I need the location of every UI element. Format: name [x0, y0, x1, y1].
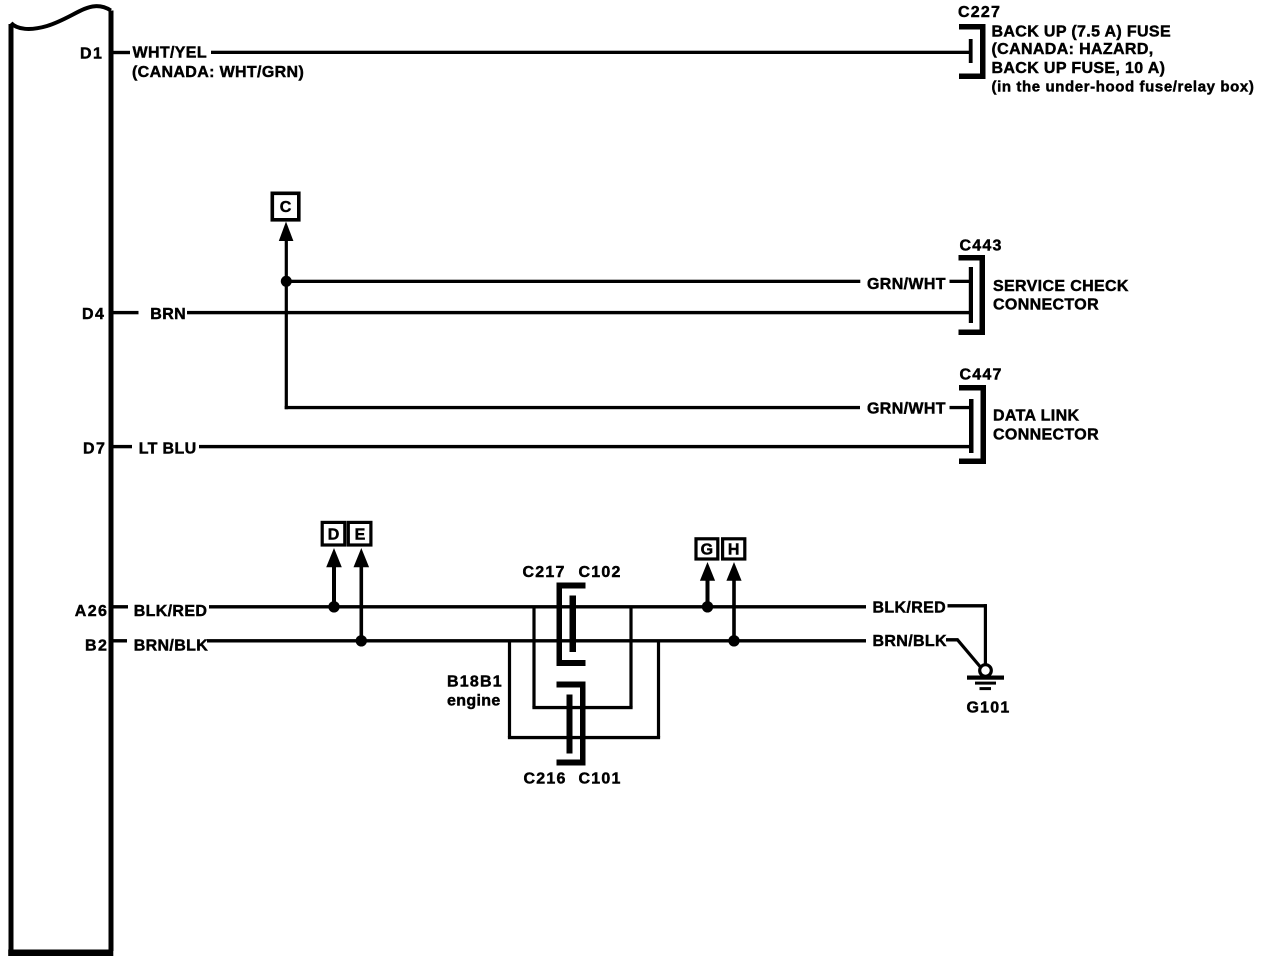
- pin D7: [83, 440, 132, 457]
- svg-text:C443: C443: [960, 237, 1003, 254]
- node E label box: [348, 522, 371, 545]
- svg-text:D1: D1: [80, 45, 103, 62]
- wire tick GRN/WHT to C443 pin: [950, 280, 970, 283]
- svg-text:E: E: [355, 527, 366, 544]
- connector C447 (data link connector): [959, 385, 986, 464]
- wire BLK/RED branch right vertical: [629, 607, 632, 708]
- svg-text:C: C: [280, 199, 292, 216]
- wire BLK/RED branch left vertical: [532, 607, 535, 708]
- svg-text:A26: A26: [75, 603, 109, 620]
- svg-text:D4: D4: [82, 306, 105, 323]
- connector C216/C101 (inline, bracket half): [557, 682, 586, 766]
- pin D1: [80, 45, 130, 62]
- junction dot arrow H on BRN/BLK: [728, 635, 739, 646]
- wire GRN/WHT branch to C443: [286, 280, 860, 283]
- svg-text:B2: B2: [85, 637, 108, 654]
- arrow to node C: [279, 222, 294, 242]
- wire BRN/BLK right tick: [946, 638, 959, 641]
- svg-text:C216: C216: [524, 770, 567, 787]
- wire from BLK/RED up to arrow G: [706, 579, 710, 607]
- svg-text:C447: C447: [960, 367, 1003, 384]
- svg-text:BRN/BLK: BRN/BLK: [134, 637, 209, 654]
- wire GRN/WHT branch to C447: [285, 406, 860, 409]
- wire BLK/RED right segment to ground drop: [948, 604, 987, 607]
- svg-text:(CANADA: WHT/GRN): (CANADA: WHT/GRN): [132, 64, 304, 81]
- wire from BRN/BLK up to arrow H: [732, 579, 736, 641]
- svg-text:G101: G101: [967, 700, 1011, 717]
- arrow to node D: [326, 548, 342, 567]
- svg-text:BLK/RED: BLK/RED: [134, 603, 208, 620]
- connector C217/C102 pin bar: [570, 596, 577, 653]
- wire LT BLU D7 to C447: [199, 445, 969, 448]
- svg-text:C101: C101: [579, 770, 622, 787]
- pin D4: [82, 306, 138, 323]
- connector C227 (fuse terminal): [959, 24, 986, 79]
- svg-text:BLK/RED: BLK/RED: [873, 599, 947, 616]
- wire tick GRN/WHT to C447 pin: [950, 406, 970, 409]
- connector C216/C101 pin bar: [567, 695, 573, 754]
- arrow to node H: [726, 562, 741, 581]
- svg-text:(in the under-hood fuse/relay: (in the under-hood fuse/relay box): [992, 79, 1255, 96]
- svg-text:D7: D7: [83, 440, 106, 457]
- wire WHT/YEL D1 to C227: [211, 51, 969, 54]
- svg-text:DATA LINK: DATA LINK: [993, 408, 1079, 425]
- wire BRN D4 to C443: [187, 311, 969, 314]
- junction dot arrow D on BLK/RED: [328, 601, 339, 612]
- svg-text:LT BLU: LT BLU: [139, 440, 197, 457]
- node C (connector branch label box): [272, 193, 299, 220]
- svg-text:C227: C227: [958, 4, 1001, 21]
- wire BRN/BLK branch right vertical: [657, 641, 660, 738]
- wire BRN/BLK branch left vertical: [508, 641, 511, 738]
- svg-text:G: G: [701, 542, 713, 559]
- svg-text:(CANADA: HAZARD,: (CANADA: HAZARD,: [992, 41, 1154, 58]
- pin A26: [75, 603, 128, 620]
- svg-text:BRN/BLK: BRN/BLK: [873, 633, 948, 650]
- wire from BRN/BLK up to arrow E: [360, 565, 364, 641]
- svg-text:SERVICE CHECK: SERVICE CHECK: [993, 278, 1129, 295]
- wire BLK/RED branch bottom horizontal through C216/C101: [532, 706, 632, 709]
- junction dot arrow E on BRN/BLK: [356, 635, 367, 646]
- svg-text:CONNECTOR: CONNECTOR: [993, 296, 1099, 313]
- connector C443 (service check connector): [959, 255, 986, 335]
- arrow to node E: [354, 548, 370, 567]
- wire from BLK/RED up to arrow D: [332, 565, 336, 607]
- svg-text:B18B1: B18B1: [447, 673, 503, 690]
- wire branch up from junction to arrow C: [285, 238, 288, 282]
- svg-text:D: D: [328, 527, 340, 544]
- svg-text:C102: C102: [579, 564, 622, 581]
- wire BRN/BLK branch bottom horizontal through C216/C101: [508, 736, 660, 739]
- wire BRN/BLK B2 main run: [207, 639, 866, 642]
- junction dot arrow G on BLK/RED: [702, 601, 713, 612]
- svg-text:GRN/WHT: GRN/WHT: [867, 400, 946, 417]
- svg-text:BRN: BRN: [150, 306, 186, 323]
- junction dot on BRN branch: [281, 276, 292, 287]
- wire BLK/RED A26 main run: [209, 605, 866, 608]
- svg-text:CONNECTOR: CONNECTOR: [993, 426, 1099, 443]
- node H label box: [723, 539, 745, 559]
- wire BLK/RED vertical drop to ground: [984, 604, 987, 665]
- svg-text:GRN/WHT: GRN/WHT: [867, 276, 946, 293]
- svg-text:WHT/YEL: WHT/YEL: [133, 45, 207, 62]
- svg-text:engine: engine: [447, 693, 501, 710]
- arrow to node G: [700, 562, 715, 581]
- svg-text:H: H: [728, 542, 740, 559]
- pin B2: [85, 637, 127, 654]
- control unit box (left, partial outline with torn wavy top): [8, 6, 113, 953]
- wire branch down from junction to C447 row: [285, 281, 288, 409]
- svg-text:C217: C217: [523, 564, 566, 581]
- node D label box: [322, 522, 345, 545]
- ground G101: [967, 665, 1004, 690]
- node G label box: [696, 539, 718, 559]
- connector C217/C102 (inline, bracket half): [557, 583, 586, 667]
- svg-text:BACK UP FUSE, 10 A): BACK UP FUSE, 10 A): [992, 60, 1166, 77]
- svg-text:BACK UP (7.5 A) FUSE: BACK UP (7.5 A) FUSE: [992, 23, 1171, 40]
- wire BRN/BLK diagonal to ground: [958, 640, 981, 667]
